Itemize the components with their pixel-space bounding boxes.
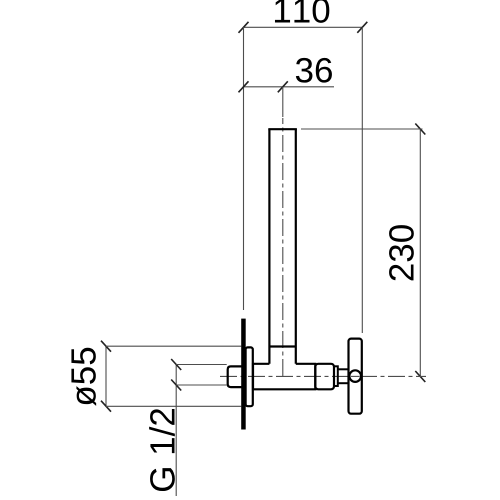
handle bar — [349, 339, 362, 414]
extension line G 1/2 top — [176, 364, 227, 366]
dimension line dia55 — [105, 346, 107, 406]
hub centerline dash — [351, 375, 360, 377]
wall plate (edge view) — [241, 319, 246, 430]
G 1/2 connector — [228, 366, 243, 387]
tick bottom of G 1/2 — [171, 380, 181, 391]
rosette — [246, 347, 253, 406]
tick right of 36 — [278, 81, 288, 92]
extension from 36 to pipe axis — [282, 87, 284, 117]
label 36 — [296, 58, 332, 83]
label dia55 — [71, 348, 96, 406]
dimension line 36 — [244, 86, 335, 88]
pipe right edge — [295, 129, 297, 364]
stem ring — [334, 366, 338, 386]
stem top line — [338, 368, 350, 370]
extension line G 1/2 bottom — [176, 384, 227, 386]
centerline horizontal (valve axis) — [220, 375, 426, 377]
extension line left (wall face) — [243, 27, 245, 310]
extension line top (pipe top to 230) — [301, 128, 423, 130]
extension line dia55 bottom — [106, 405, 241, 407]
pipe left edge — [268, 129, 270, 364]
extension line dia55 top — [106, 345, 241, 347]
extension line right (handle edge) — [361, 27, 363, 333]
label 110 — [275, 0, 329, 23]
label 230 — [389, 225, 414, 280]
bonnet — [315, 364, 334, 390]
dimension line G 1/2 — [175, 365, 177, 497]
tick top of G 1/2 — [171, 359, 181, 370]
tick left of 110 — [239, 22, 249, 33]
socket shoulder line — [269, 345, 295, 347]
dimension line 110 — [244, 26, 363, 28]
pipe top edge — [268, 128, 297, 130]
valve body — [253, 364, 315, 390]
label G 1/2 — [149, 409, 175, 491]
tick bottom of 230 — [415, 371, 425, 382]
tick top of 230 — [415, 124, 425, 135]
handle hub — [349, 370, 361, 382]
tick right of 110 — [357, 22, 367, 33]
centerline vertical (pipe axis) — [282, 118, 284, 377]
tick top of dia55 — [101, 341, 111, 352]
tick bottom of dia55 — [101, 401, 111, 412]
dimension line 230 — [419, 129, 421, 377]
tick left of 36 — [239, 81, 249, 92]
stem bottom line — [338, 382, 350, 384]
